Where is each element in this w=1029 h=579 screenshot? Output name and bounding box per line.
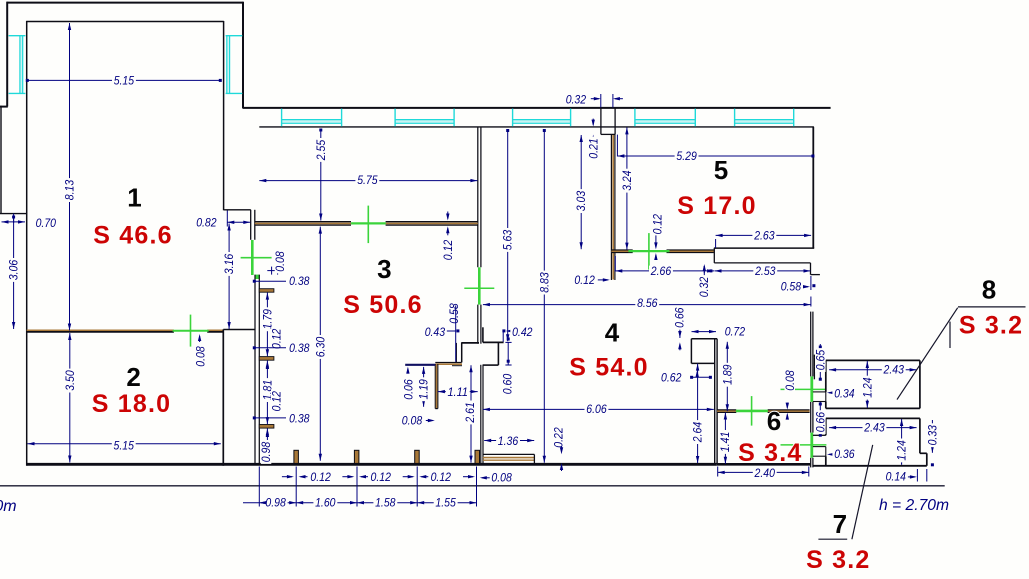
room 7 door jamb box: [813, 446, 826, 448]
svg-text:0.98: 0.98: [265, 495, 285, 509]
svg-text:1.24: 1.24: [860, 377, 874, 397]
room 2 right wall: [222, 329, 224, 465]
dimension chain 0.98 1.60 1.58 1.55: [258, 467, 260, 507]
svg-text:1.24: 1.24: [895, 440, 909, 460]
window right of room 1 (cyan): [227, 36, 230, 93]
svg-text:2.43: 2.43: [863, 420, 884, 434]
wall A (right of room 1) double line: [250, 210, 252, 240]
dimension 0.65 room8: [819, 344, 821, 379]
svg-text:S 50.6: S 50.6: [343, 291, 422, 319]
window left of room 1 (cyan): [20, 36, 23, 93]
dimension 0.38 stub3: [254, 417, 286, 419]
door opening room1-room2 green cross: [190, 315, 192, 347]
closet vertical wall (tan fill): [434, 364, 436, 409]
room 5 right wall: [812, 127, 814, 248]
dimension 0.82: [227, 221, 250, 223]
outer wall right of room 1 block: [242, 2, 244, 109]
svg-text:3.03: 3.03: [574, 191, 588, 211]
svg-text:0.12: 0.12: [441, 240, 455, 260]
pillar 4: [475, 450, 480, 463]
door to room 7 green cross: [810, 433, 813, 458]
door opening room5 green cross: [648, 233, 650, 270]
dimension 5.15 room2 width: [28, 443, 221, 445]
dimension 1.41: [724, 413, 726, 464]
room 3 right wall lower segment: [477, 305, 479, 344]
svg-text:5.75: 5.75: [357, 173, 377, 187]
right wing corridor wall (double): [810, 312, 812, 377]
svg-text:0.14: 0.14: [886, 470, 906, 484]
facade windows (cyan): [282, 120, 342, 123]
svg-text:6: 6: [767, 406, 781, 436]
svg-text:0.12: 0.12: [269, 391, 283, 411]
room 3 right wall upper segment (double): [477, 127, 479, 267]
svg-text:8.13: 8.13: [63, 180, 77, 200]
svg-text:1.19: 1.19: [417, 379, 431, 399]
dimension 0.12 stub3 thickness: [266, 432, 268, 437]
dimension 8.83: [543, 131, 545, 463]
dimension 2.64: [697, 364, 699, 463]
svg-text:5.29: 5.29: [676, 149, 696, 163]
dimension 5.15 room1 width: [27, 79, 220, 81]
outer wall step at left: [0, 106, 8, 108]
room 3 left wall double line: [254, 275, 256, 463]
room4 interior step left vertical: [690, 339, 692, 364]
svg-text:1: 1: [127, 183, 141, 213]
dimension 0.22: [553, 426, 564, 450]
door to room 8 green cross: [810, 376, 813, 402]
dimension 6.30 room3 height: [319, 227, 321, 461]
svg-text:5.63: 5.63: [501, 230, 515, 250]
wall stub 2 on room3 left wall: [259, 357, 274, 361]
step below room5 right: [810, 263, 812, 275]
dimension 0.58 closet: [449, 302, 460, 326]
svg-text:6.06: 6.06: [586, 402, 606, 416]
dimension 8.13 room height: [69, 23, 71, 331]
dimension 0.21: [592, 119, 594, 125]
dimension 0.98 left: [266, 428, 268, 461]
svg-text:0.58: 0.58: [447, 303, 461, 323]
room 5 bottom wall right segment (tan): [667, 249, 714, 251]
svg-text:2.40: 2.40: [754, 466, 775, 480]
dimension 0.42: [502, 329, 505, 332]
svg-text:0.60: 0.60: [501, 374, 515, 394]
dimension 3.03: [580, 135, 582, 249]
dimension 0.08 wall offset: [267, 270, 283, 272]
svg-text:S 18.0: S 18.0: [92, 390, 171, 418]
dimension 1.89: [726, 342, 728, 411]
svg-text:0.12: 0.12: [310, 470, 330, 484]
svg-text:0.38: 0.38: [289, 341, 309, 355]
dimension 2.55: [320, 130, 322, 221]
dimension 1.11: [438, 391, 478, 393]
dimension 2.53: [715, 270, 811, 272]
svg-text:S 17.0: S 17.0: [677, 192, 756, 220]
svg-text:8: 8: [982, 275, 996, 305]
room 6 bottom wall: [717, 463, 810, 466]
svg-text:0.32: 0.32: [566, 92, 586, 106]
svg-text:0.72: 0.72: [725, 325, 745, 339]
svg-text:8.83: 8.83: [537, 272, 551, 292]
svg-text:0.38: 0.38: [289, 412, 309, 426]
main building top wall: [243, 107, 831, 109]
svg-text:0.08: 0.08: [273, 251, 287, 271]
dimension 0.43: [447, 330, 456, 332]
outer wall left upper: [6, 2, 8, 107]
pillar 1 on room3 bottom wall: [294, 450, 299, 463]
svg-text:0.12: 0.12: [651, 214, 665, 234]
svg-text:3.06: 3.06: [7, 260, 21, 280]
svg-text:2.61: 2.61: [463, 402, 477, 423]
svg-text:0m: 0m: [0, 498, 17, 515]
svg-text:2.43: 2.43: [883, 363, 904, 377]
svg-text:0.08: 0.08: [402, 414, 422, 428]
dimension 0.66 room7: [819, 402, 821, 435]
dimension 0.60 closet: [507, 343, 509, 366]
dimension 0.38 stub1: [254, 280, 286, 282]
svg-text:0.08: 0.08: [491, 471, 511, 485]
room 7 outline: [826, 417, 920, 419]
room 6 top wall right segment (tan): [768, 409, 810, 411]
room 5 left wall lower segment: [610, 252, 612, 280]
wall between room 4 and room 6 (double): [714, 339, 716, 464]
svg-text:2.53: 2.53: [754, 264, 775, 278]
dimension 2.61: [470, 365, 472, 462]
dimension 0.12 room5 bottom wall: [652, 212, 663, 236]
dimension 3.24: [626, 127, 628, 249]
svg-text:0.06: 0.06: [402, 379, 416, 399]
svg-text:0.62: 0.62: [661, 370, 681, 384]
dimension 0.12 room5 left wall: [573, 275, 597, 286]
door opening on wall A green cross: [251, 240, 254, 275]
svg-text:3.24: 3.24: [620, 170, 634, 190]
svg-text:8.56: 8.56: [637, 296, 657, 310]
dimension 0.38 stub2: [254, 347, 286, 349]
room 5 bottom wall left segment (tan): [611, 249, 632, 251]
wall between room 1 and room 2 (left part, tan sill): [27, 329, 174, 331]
svg-text:3.16: 3.16: [222, 254, 236, 274]
svg-text:1.11: 1.11: [448, 385, 468, 399]
dimension 5.75 room3 width: [259, 180, 477, 182]
dimension 0.08 room1-2 wall thickness: [199, 336, 201, 342]
dimension 0.66 step: [679, 326, 681, 338]
room 1 inner wall top: [26, 21, 224, 23]
jog wall between room2 and room3 walls: [223, 329, 255, 331]
dimension 1.19: [423, 367, 425, 407]
svg-text:1.36: 1.36: [498, 434, 518, 448]
svg-text:0.38: 0.38: [289, 274, 309, 288]
room4 interior step top: [691, 338, 717, 340]
dimension 8.56: [483, 304, 811, 306]
wall between room 1 and room 2 (right part): [207, 329, 223, 331]
dimension 1.36: [484, 440, 534, 442]
room 4 left wall (double): [480, 365, 482, 464]
room5 wall stub below top wall: [600, 108, 602, 134]
dimension 0.62: [691, 376, 710, 378]
door opening room3 top wall green cross: [367, 206, 369, 244]
bottom wall rooms 2-3-4: [27, 463, 717, 466]
entry step bottom: [483, 364, 499, 366]
inner wall step left: [0, 213, 27, 215]
svg-text:1.58: 1.58: [375, 495, 395, 509]
svg-text:0.21: 0.21: [587, 138, 601, 158]
svg-text:4: 4: [605, 318, 620, 348]
room 1+2 left inner wall: [26, 21, 28, 466]
dimension 1.79: [266, 293, 268, 357]
dimension 2.63: [716, 234, 812, 236]
svg-text:0.82: 0.82: [196, 216, 216, 230]
svg-text:1.55: 1.55: [435, 495, 455, 509]
dimension 6.06: [483, 408, 714, 410]
dimension row 0.12 pillars: [282, 476, 292, 478]
svg-text:7: 7: [833, 509, 847, 539]
svg-text:1.79: 1.79: [260, 309, 274, 329]
svg-text:5: 5: [714, 155, 728, 185]
room 8 leader tick: [949, 322, 951, 348]
svg-text:1.41: 1.41: [718, 432, 732, 452]
svg-text:3: 3: [377, 254, 391, 284]
svg-text:S 46.6: S 46.6: [93, 222, 172, 250]
green door tick at room3 left wall top: [256, 275, 259, 279]
svg-text:0.66: 0.66: [673, 307, 687, 327]
svg-text:S 3.4: S 3.4: [738, 439, 802, 467]
room4 interior step bottom: [691, 362, 714, 364]
room 3 top interior wall right part: [386, 221, 478, 223]
dimension 0.70: [2, 221, 26, 223]
svg-text:0.65: 0.65: [813, 350, 827, 370]
svg-text:0.34: 0.34: [834, 386, 854, 400]
svg-text:3.50: 3.50: [63, 370, 77, 390]
dimension 0.32 facade niche: [564, 94, 588, 105]
dimension 0.72: [692, 331, 717, 333]
svg-text:0.98: 0.98: [259, 442, 273, 462]
svg-text:2.63: 2.63: [753, 228, 774, 242]
door opening on room3 right wall green cross: [478, 267, 481, 304]
dimension 1.24 room8: [866, 361, 868, 408]
wall stub 3 on room3 left wall: [259, 425, 274, 429]
svg-text:1.89: 1.89: [720, 364, 734, 384]
svg-text:0.36: 0.36: [834, 447, 854, 461]
svg-text:2.64: 2.64: [691, 422, 705, 443]
dimension 0.33: [931, 420, 933, 453]
room 7 label underline: [818, 538, 847, 540]
dimension 0.08 closet: [400, 415, 424, 426]
dimension 0.06: [407, 369, 409, 374]
svg-text:6.30: 6.30: [313, 337, 327, 357]
svg-text:0.12: 0.12: [269, 329, 283, 349]
svg-text:0.42: 0.42: [512, 325, 532, 339]
room 5 left wall (tan fill): [610, 134, 612, 252]
svg-text:0.32: 0.32: [697, 277, 711, 297]
svg-text:0.08: 0.08: [783, 370, 797, 390]
dimension 0.58: [779, 281, 803, 292]
dimension 0.08 room6 top wall thickness: [785, 369, 796, 393]
entry step vertical: [497, 342, 499, 365]
dimension 3.50 room2 height: [69, 333, 71, 463]
svg-text:2: 2: [126, 362, 140, 392]
room 1 inner wall right: [223, 21, 225, 210]
dimension 5.63: [507, 131, 509, 342]
dimension 2.43 room7: [829, 427, 917, 429]
room 3 top interior wall (tan) left part: [255, 221, 351, 223]
room 6 top wall left segment (tan): [717, 409, 736, 411]
dimension 3.06: [13, 217, 15, 329]
svg-text:0.70: 0.70: [36, 216, 56, 230]
dimension 0.34: [829, 392, 834, 394]
room 5 bottom-right thick wall outline: [714, 247, 814, 249]
room 8 door jamb box: [813, 391, 826, 393]
room 8 label underline: [958, 306, 1026, 308]
dimension 1.24 room7: [901, 419, 903, 465]
pillar 2: [354, 450, 359, 463]
room 4 entry wall vertical stub above: [482, 327, 484, 342]
svg-text:0.58: 0.58: [781, 280, 801, 294]
outer wall left edge strip: [0, 106, 2, 214]
dimension 0.32 step: [703, 266, 705, 273]
svg-text:S 3.2: S 3.2: [959, 311, 1023, 339]
dimension 0.08 pillar4 gap: [482, 477, 492, 479]
dimension 2.66: [615, 270, 714, 272]
ground baseline: [0, 485, 945, 487]
svg-text:2.55: 2.55: [314, 140, 328, 161]
dimension 3.16: [228, 224, 230, 330]
thin partition line left of closet: [405, 364, 435, 366]
dimension 0.14: [884, 471, 908, 482]
room 7 leader line: [852, 445, 873, 539]
outer wall top (room 1 block): [7, 2, 244, 4]
svg-text:0.22: 0.22: [552, 427, 566, 447]
jog wall room1 right to wall A: [224, 209, 251, 211]
dimension 5.29 room5 width: [617, 155, 813, 157]
wall stub 1 on room3 left wall: [259, 289, 274, 293]
closet top wall: [462, 342, 479, 344]
svg-text:0.12: 0.12: [431, 470, 451, 484]
dimension 0.36: [829, 453, 834, 455]
dimension 2.40 room6 width: [718, 471, 809, 473]
pillar 3: [415, 450, 420, 463]
top wall inner face line: [259, 126, 814, 128]
svg-text:5.15: 5.15: [114, 438, 134, 452]
svg-text:0.66: 0.66: [813, 412, 827, 432]
room 8 outline: [826, 359, 920, 361]
svg-text:h = 2.70m: h = 2.70m: [879, 497, 949, 514]
svg-text:S 3.2: S 3.2: [806, 546, 870, 574]
svg-text:0.08: 0.08: [194, 346, 208, 366]
svg-text:0.12: 0.12: [574, 273, 594, 287]
svg-text:0.33: 0.33: [925, 425, 939, 445]
dimension 0.12 room3 top wall: [447, 212, 449, 219]
closet bottom wall band (tan): [435, 362, 461, 364]
room 8 left wall upper piece: [813, 355, 815, 380]
svg-text:2.66: 2.66: [650, 264, 671, 278]
svg-text:5.15: 5.15: [114, 73, 134, 87]
dimension 0.12 stub2 thickness: [266, 364, 268, 369]
svg-text:0.43: 0.43: [425, 325, 445, 339]
svg-text:1.60: 1.60: [315, 495, 335, 509]
dimension 1.81: [266, 361, 268, 425]
room 4 low shelf wall (tan): [483, 453, 535, 455]
room 4 entry wall top horizontal: [483, 341, 504, 343]
dimension 2.43 room8: [829, 369, 917, 371]
svg-text:0.12: 0.12: [371, 470, 391, 484]
door opening room6 green cross: [751, 396, 753, 426]
closet left wall vertical (double): [455, 343, 457, 363]
svg-text:S 54.0: S 54.0: [569, 354, 648, 382]
room 8 leader line: [897, 308, 958, 400]
